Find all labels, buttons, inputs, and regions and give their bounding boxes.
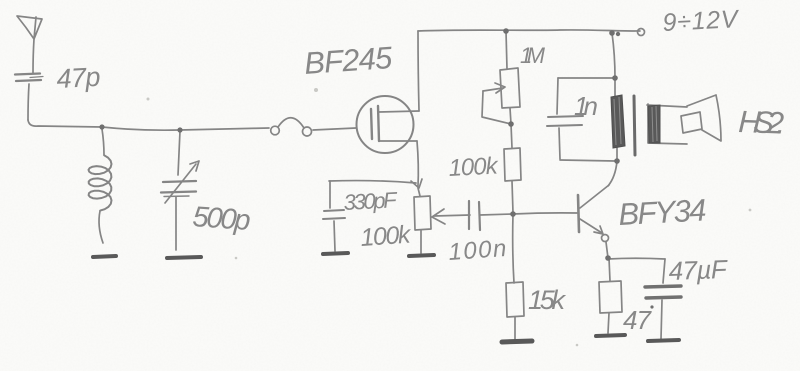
svg-text:BF245: BF245 bbox=[303, 40, 394, 81]
svg-text:9÷12V: 9÷12V bbox=[662, 5, 741, 37]
svg-text:1M: 1M bbox=[520, 43, 546, 68]
svg-text:15k: 15k bbox=[528, 285, 567, 315]
svg-text:1n: 1n bbox=[574, 91, 598, 121]
svg-text:47: 47 bbox=[623, 305, 653, 335]
svg-text:HS2.: HS2. bbox=[738, 104, 786, 141]
svg-text:47p: 47p bbox=[56, 62, 102, 94]
svg-text:47µF: 47µF bbox=[668, 254, 729, 286]
svg-text:330pF: 330pF bbox=[343, 187, 399, 215]
svg-text:100k: 100k bbox=[448, 152, 500, 182]
svg-text:100k: 100k bbox=[359, 220, 412, 252]
svg-text:500p: 500p bbox=[192, 201, 252, 237]
svg-text:BFY34: BFY34 bbox=[618, 192, 708, 232]
svg-text:100n: 100n bbox=[448, 235, 508, 266]
